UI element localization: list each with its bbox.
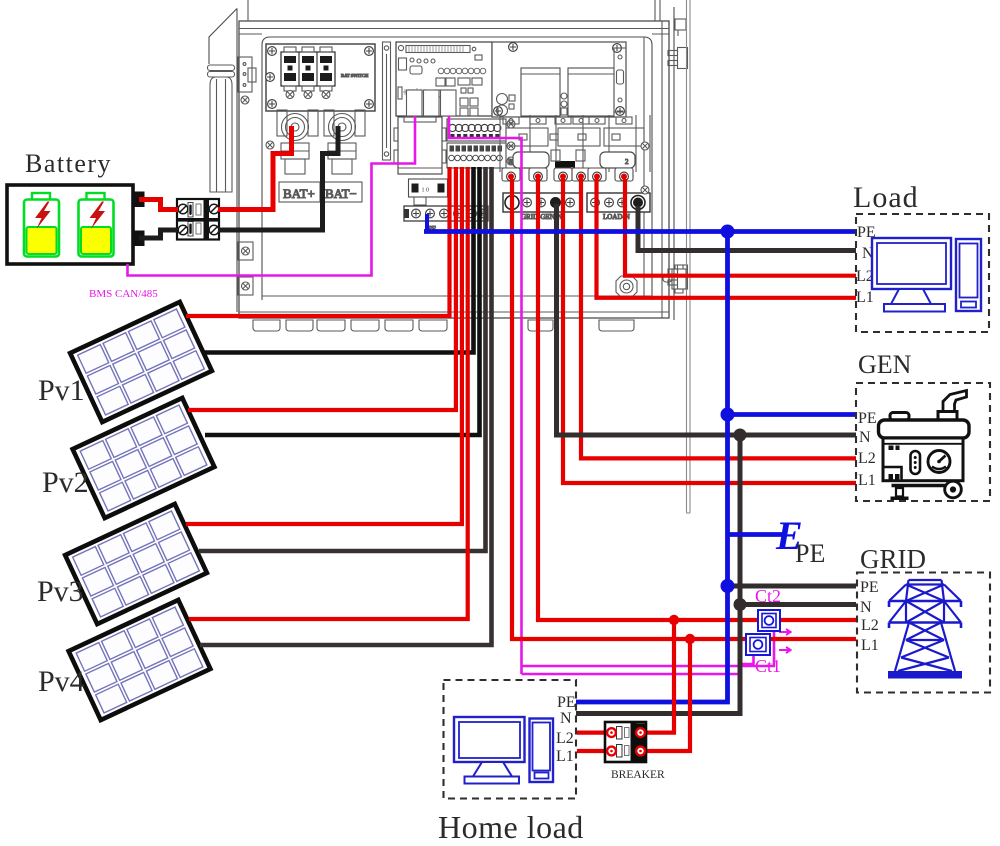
BAT SWITCH plate	[266, 44, 375, 111]
svg-text:GRID: GRID	[860, 544, 926, 574]
wire PE blue pigtail	[425, 214, 429, 232]
Load computer tower	[956, 239, 981, 311]
busbar LOAD-N	[587, 193, 650, 212]
battery terminal post +	[277, 110, 318, 174]
left AC block	[394, 117, 446, 174]
wire earth E blue branch	[728, 532, 784, 537]
wire CT2 magenta branch	[522, 632, 775, 666]
wire Pv2 red	[188, 167, 456, 410]
wire LOAD L2 red	[625, 179, 856, 276]
transformer module 2	[568, 68, 614, 116]
battery DC breaker	[177, 199, 219, 240]
battery - stub	[133, 231, 145, 247]
wire GEN N black	[557, 204, 857, 435]
divider bracket	[383, 42, 391, 160]
side clamp fitting	[663, 265, 686, 293]
CT1 arrow	[779, 647, 791, 653]
svg-text:1 0: 1 0	[422, 188, 430, 194]
BAT- label box	[321, 182, 362, 202]
contactor row	[500, 115, 650, 172]
face screws	[266, 141, 274, 149]
svg-text:Pv3: Pv3	[37, 575, 84, 608]
svg-text:L1: L1	[858, 472, 876, 489]
wire GRID N black	[740, 435, 856, 605]
junction dot blue Load PE	[721, 225, 735, 239]
CT2 arrow	[779, 629, 791, 635]
svg-text:PE: PE	[858, 410, 877, 427]
inverter left hinge bracket	[238, 57, 256, 104]
GEN generator icon	[879, 391, 970, 501]
inverter left side open lid	[208, 9, 238, 313]
PV panel Pv2	[73, 398, 215, 518]
junction dot black GRID N	[734, 598, 747, 611]
svg-text:Ct2: Ct2	[755, 586, 781, 606]
Home computer tower	[530, 719, 554, 783]
Home computer monitor	[454, 717, 525, 784]
svg-text:N: N	[859, 429, 871, 446]
svg-text:L2: L2	[861, 617, 879, 634]
svg-text:Load: Load	[853, 181, 919, 214]
wire GRID L2 red	[538, 179, 856, 620]
transformer module 1	[521, 68, 560, 116]
wire BMS CAN/485 magenta	[128, 116, 416, 276]
svg-text:Pv2: Pv2	[42, 466, 89, 499]
svg-text:L1: L1	[856, 289, 874, 306]
wire battery negative black	[139, 230, 178, 238]
PVPANELS	[37, 302, 214, 720]
face inner right line	[643, 37, 645, 296]
wire battery positive red to BAT+ post	[218, 126, 292, 210]
wire Home L1 red right riser	[645, 639, 690, 751]
wire LOAD N black	[638, 206, 856, 251]
wire Pv1 red	[186, 167, 450, 316]
wire battery negative black to BAT- post	[218, 126, 338, 230]
svg-text:BAT+: BAT+	[283, 186, 315, 201]
wire CT1 magenta branch	[522, 655, 754, 674]
wire Pv4 red	[189, 167, 468, 619]
BREAKER box	[605, 722, 646, 762]
svg-text:L2: L2	[858, 450, 876, 467]
RIGHTBOXES	[853, 181, 990, 693]
wire PE blue vertical	[576, 232, 728, 703]
control PCB	[396, 42, 492, 116]
power plate	[492, 42, 626, 117]
inverter case outer shell	[239, 0, 669, 318]
svg-text:Ct1: Ct1	[755, 656, 781, 676]
wire Home L1 red left	[577, 749, 606, 753]
svg-text:PE: PE	[860, 579, 879, 596]
BAT+ label box	[279, 182, 320, 202]
junction dot red L1	[685, 634, 695, 644]
far wall line	[687, 0, 691, 513]
svg-text:GEN: GEN	[858, 350, 912, 379]
wire Pv3 red	[186, 167, 462, 524]
INVERTER	[208, 0, 691, 513]
battery cell 2	[79, 193, 114, 257]
CT2 sensor	[758, 610, 780, 631]
svg-text:BMS CAN/485: BMS CAN/485	[89, 288, 158, 300]
Home load dashed box	[444, 680, 577, 799]
right inner strip	[614, 48, 626, 112]
wire Pv1 black	[203, 167, 474, 353]
Load dashed box	[856, 214, 989, 332]
bat switch breakers	[281, 47, 335, 99]
busbar GRID-GEN-N	[503, 193, 581, 212]
svg-text:Pv1: Pv1	[38, 374, 85, 407]
svg-text:R: R	[508, 158, 513, 166]
battery + stub	[133, 192, 145, 208]
PV panel Pv4	[69, 600, 211, 720]
svg-text:Pv4: Pv4	[38, 665, 85, 698]
battery terminal post -	[324, 110, 365, 174]
CT1 sensor	[746, 634, 770, 655]
svg-text:BAT SWITCH: BAT SWITCH	[341, 73, 369, 78]
junction dot black GEN N	[734, 429, 747, 442]
svg-text:Battery: Battery	[25, 149, 112, 178]
svg-text:Home load: Home load	[438, 809, 584, 845]
wire LOAD L1 red	[597, 179, 857, 298]
svg-text:PE: PE	[795, 539, 825, 568]
wire GEN L2 red	[581, 179, 856, 458]
svg-text:L2: L2	[556, 730, 574, 747]
wire CT magenta from PCB	[449, 116, 522, 674]
GRID dashed box	[857, 573, 990, 693]
HOMELOAD	[438, 680, 665, 845]
svg-text:PE: PE	[557, 694, 576, 711]
wire Pv2 black	[205, 167, 480, 435]
svg-text:2: 2	[625, 158, 629, 166]
ground busbar PE	[404, 206, 488, 221]
wire Home L2 red left	[577, 730, 606, 734]
wire PE blue main to Load	[424, 229, 856, 234]
junction dot red L2	[669, 615, 679, 625]
wire GEN L1 red	[563, 179, 856, 483]
wire Home L2 red right riser	[645, 620, 674, 733]
junction dot blue GRID PE	[721, 579, 735, 593]
PV terminal row upper	[447, 119, 506, 141]
GRID tower icon	[888, 580, 962, 679]
svg-text:N: N	[560, 710, 572, 727]
svg-text:L1: L1	[861, 637, 879, 654]
PV panel Pv1	[70, 302, 212, 422]
GEN dashed box	[856, 383, 990, 501]
BATTERY	[7, 149, 219, 300]
battery cell 1	[24, 193, 59, 257]
svg-text:N: N	[860, 599, 872, 616]
PV terminal row lower	[447, 120, 515, 168]
wire GRID PE black	[729, 584, 856, 589]
junction dot blue GEN PE	[721, 408, 735, 422]
wire battery positive red	[139, 200, 178, 210]
svg-text:BAT−: BAT−	[325, 186, 357, 201]
wire Home load N black	[576, 605, 740, 714]
wire GEN PE blue	[728, 412, 857, 417]
small IO connector	[409, 179, 448, 205]
PV panel Pv3	[65, 504, 207, 624]
wire Pv3 black	[199, 167, 486, 551]
battery box	[7, 185, 133, 264]
cable gland	[616, 276, 637, 297]
inverter left lower brackets	[238, 242, 253, 295]
contactor bottom terminals	[502, 168, 633, 181]
svg-text:L1: L1	[556, 748, 574, 765]
wire GRID L1 red	[512, 179, 856, 639]
Load computer monitor	[872, 238, 951, 312]
module middle details	[561, 93, 567, 115]
PCB relays	[407, 90, 479, 116]
inverter right wall rail	[668, 7, 688, 320]
inverter bottom edge	[239, 296, 669, 331]
wire Pv4 black	[200, 167, 492, 645]
svg-text:BREAKER: BREAKER	[611, 769, 665, 781]
